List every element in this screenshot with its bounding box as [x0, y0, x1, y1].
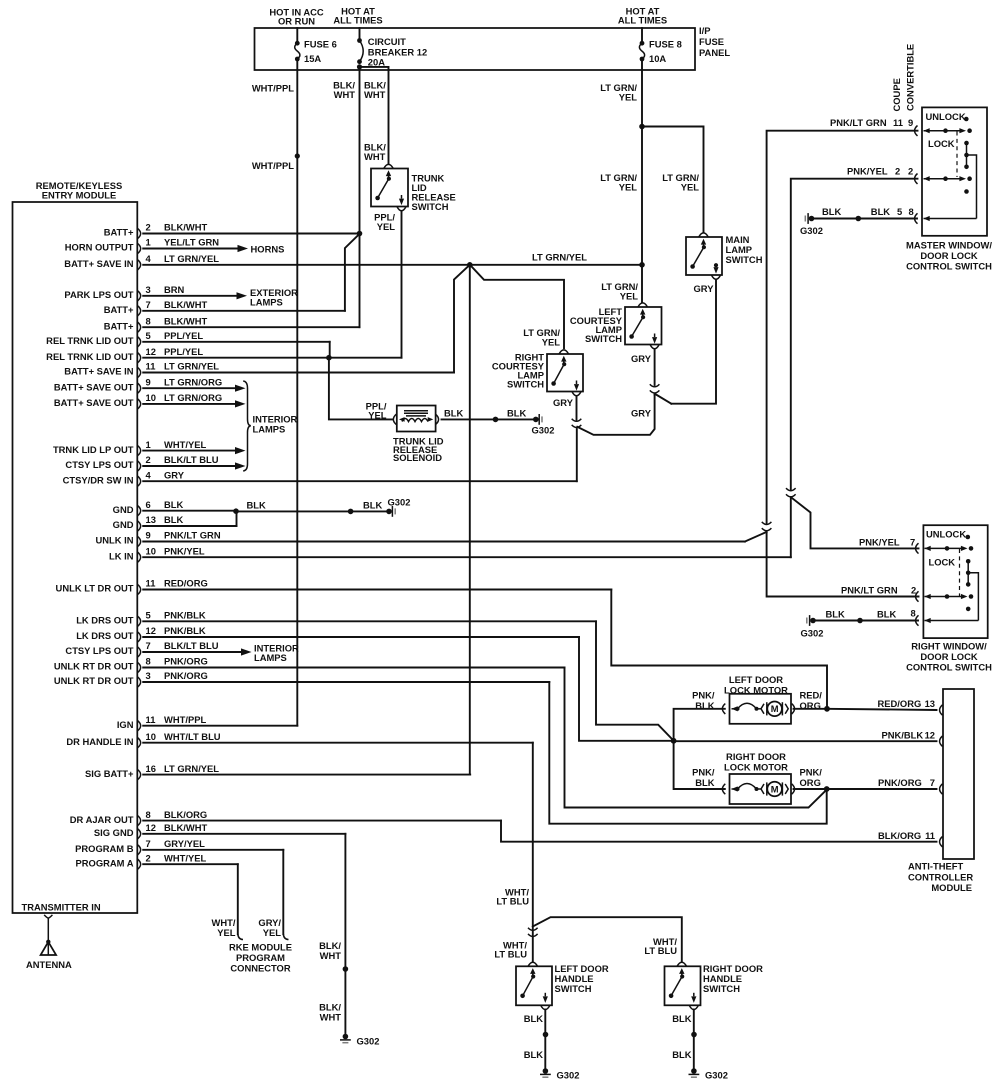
wire PNK/BLK 12 to anti-theft [674, 740, 937, 742]
wire BLK to master [814, 218, 917, 220]
svg-text:11: 11 [146, 361, 156, 372]
node LT GRN/YEL junction B (fuse 8 drop) [639, 124, 645, 130]
wire BLK right handle to ground [693, 1010, 695, 1069]
wire BLK from solenoid to ground [442, 418, 534, 420]
fuse F6 15A [296, 28, 298, 43]
circuit breaker CB12 20A [359, 28, 361, 41]
svg-text:BLK: BLK [164, 499, 183, 510]
svg-text:BLK/WHT: BLK/WHT [164, 822, 207, 833]
trunk lid release solenoid [393, 414, 396, 424]
wire UNLK IN diagonal to riser [745, 532, 767, 542]
svg-text:BLK: BLK [672, 1013, 691, 1024]
svg-text:LOCK MOTOR: LOCK MOTOR [724, 684, 788, 695]
svg-text:PROGRAM: PROGRAM [236, 952, 285, 963]
node CB12 output junction [357, 64, 362, 69]
wire junction A to right courtesy switch [470, 265, 564, 348]
svg-text:2: 2 [146, 222, 151, 233]
anti-theft controller module box [943, 689, 974, 859]
svg-text:12: 12 [146, 625, 156, 636]
node RED/ORG junction [824, 706, 830, 712]
svg-text:11: 11 [146, 578, 156, 589]
svg-text:2: 2 [908, 166, 913, 177]
svg-text:ORG: ORG [800, 700, 821, 711]
svg-text:PNK/LT GRN: PNK/LT GRN [164, 530, 221, 541]
svg-text:16: 16 [146, 763, 156, 774]
svg-text:15A: 15A [304, 53, 321, 64]
wire GRY down to CTSY/DR SW IN row [576, 429, 578, 481]
svg-text:SWITCH: SWITCH [555, 983, 592, 994]
master dashed divider [956, 132, 958, 178]
ground G302 (master) [809, 216, 815, 222]
svg-text:BLK: BLK [672, 1049, 691, 1060]
svg-text:HORNS: HORNS [251, 244, 285, 255]
svg-text:PNK/ORG: PNK/ORG [164, 656, 208, 667]
svg-text:PNK/ORG: PNK/ORG [164, 670, 208, 681]
node BLK splice (gnd) [348, 509, 354, 515]
ground G302 (right handle) [691, 1068, 697, 1074]
wire DR AJAR OUT BLK/ORG path to anti-theft [501, 821, 937, 842]
svg-text:PNK/BLK: PNK/BLK [164, 625, 206, 636]
svg-text:G302: G302 [705, 1070, 728, 1081]
svg-text:BLK: BLK [363, 500, 382, 511]
svg-text:9: 9 [146, 530, 151, 541]
svg-text:YEL/LT GRN: YEL/LT GRN [164, 237, 219, 248]
svg-text:BLK: BLK [507, 408, 526, 419]
svg-text:G302: G302 [357, 1036, 380, 1047]
svg-text:CONTROLLER: CONTROLLER [908, 872, 973, 883]
interior lamps arrow (pin 7) [241, 648, 252, 655]
connector C (PNK/YEL riser) [786, 488, 796, 491]
antenna [47, 918, 49, 955]
svg-text:BRN: BRN [164, 284, 185, 295]
svg-text:5: 5 [146, 610, 151, 621]
svg-text:RIGHT WINDOW/: RIGHT WINDOW/ [911, 641, 987, 652]
svg-text:PNK/: PNK/ [692, 767, 715, 778]
trunk lid release switch [371, 169, 408, 207]
svg-text:RKE MODULE: RKE MODULE [229, 942, 292, 953]
svg-text:REL TRNK LID OUT: REL TRNK LID OUT [46, 335, 134, 346]
svg-text:BLK/ORG: BLK/ORG [164, 809, 207, 820]
svg-text:RED/ORG: RED/ORG [164, 578, 208, 589]
svg-text:DOOR LOCK: DOOR LOCK [920, 250, 978, 261]
svg-text:G302: G302 [800, 225, 823, 236]
svg-text:CIRCUIT: CIRCUIT [368, 36, 406, 47]
svg-text:7: 7 [930, 777, 935, 788]
wire PNK/YEL riser to master switch pin 2 [791, 179, 918, 490]
svg-text:7: 7 [146, 299, 151, 310]
svg-text:BLK: BLK [877, 609, 896, 620]
wire pin3 PNK/ORG path [549, 682, 826, 824]
svg-text:WHT/PPL: WHT/PPL [164, 714, 206, 725]
svg-text:BLK: BLK [444, 408, 463, 419]
exterior lamps arrow [237, 292, 248, 299]
svg-text:FUSE 6: FUSE 6 [304, 39, 337, 50]
svg-text:BATT+: BATT+ [104, 227, 134, 238]
svg-text:PNK/ORG: PNK/ORG [878, 777, 922, 788]
svg-text:11: 11 [925, 830, 935, 841]
ground G302 (right window) [810, 618, 816, 624]
main lamp switch [686, 237, 722, 275]
master unlock dot [964, 117, 969, 122]
interior lamps brace arrows (pins 9,10,1,2) [235, 385, 246, 392]
svg-text:MASTER WINDOW/: MASTER WINDOW/ [906, 240, 992, 251]
svg-text:LT BLU: LT BLU [644, 945, 677, 956]
svg-text:BLK/LT BLU: BLK/LT BLU [164, 640, 219, 651]
svg-text:7: 7 [910, 537, 915, 548]
svg-text:WHT/LT BLU: WHT/LT BLU [164, 731, 221, 742]
wire WHT/PPL from fuse 6 down to IGN row [296, 59, 298, 726]
master lower dot [964, 189, 969, 194]
svg-text:20A: 20A [368, 56, 385, 67]
svg-text:YEL: YEL [368, 410, 387, 421]
right window/door lock control switch box [923, 525, 987, 638]
svg-text:LK IN: LK IN [109, 550, 134, 561]
svg-text:OR RUN: OR RUN [278, 16, 315, 27]
wire pin12 PNK/BLK path [579, 637, 672, 741]
wire BLK to right window [816, 620, 918, 622]
svg-text:11: 11 [146, 714, 156, 725]
svg-text:2: 2 [911, 585, 916, 596]
svg-text:PNK/LT GRN: PNK/LT GRN [841, 585, 898, 596]
wire GRY left courtesy drop [654, 349, 656, 385]
svg-text:FUSE: FUSE [699, 36, 724, 47]
node BLK splice (right window) [857, 618, 863, 624]
wire pin7 riser to BATT+ junction [345, 234, 360, 311]
svg-text:LAMPS: LAMPS [253, 424, 286, 435]
svg-text:WHT: WHT [364, 151, 386, 162]
svg-text:YEL: YEL [377, 221, 396, 232]
svg-text:CTSY LPS OUT: CTSY LPS OUT [65, 645, 133, 656]
svg-text:3: 3 [146, 284, 151, 295]
svg-text:ANTENNA: ANTENNA [26, 959, 72, 970]
svg-text:1: 1 [146, 237, 151, 248]
svg-text:BLK: BLK [826, 609, 845, 620]
svg-text:WHT/PPL: WHT/PPL [252, 83, 294, 94]
node LT GRN/YEL junction A [467, 262, 473, 268]
svg-text:LOCK: LOCK [929, 557, 956, 568]
svg-text:WHT: WHT [334, 89, 356, 100]
svg-text:CONTROL SWITCH: CONTROL SWITCH [906, 261, 992, 272]
svg-text:GND: GND [113, 519, 134, 530]
svg-text:PPL/YEL: PPL/YEL [164, 330, 203, 341]
svg-text:3: 3 [146, 670, 151, 681]
ground G302 (solenoid) [533, 417, 539, 423]
node PPL/YEL junction [326, 355, 332, 361]
svg-text:G302: G302 [532, 425, 555, 436]
svg-text:CTSY/DR SW IN: CTSY/DR SW IN [63, 474, 134, 485]
node BLK splice (left handle) [543, 1032, 549, 1038]
svg-text:LT GRN/YEL: LT GRN/YEL [164, 361, 219, 372]
wire PNK/BLK junction to right motor [674, 741, 725, 789]
right window dashed divider [959, 549, 961, 596]
wire PROGRAM A WHT/YEL drop [237, 864, 239, 934]
wire BLK/WHT branch to trunk lid release switch [360, 67, 389, 164]
svg-text:LT GRN/ORG: LT GRN/ORG [164, 376, 222, 387]
svg-text:YEL: YEL [619, 182, 638, 193]
svg-text:PANEL: PANEL [699, 47, 730, 58]
svg-text:BATT+ SAVE IN: BATT+ SAVE IN [64, 366, 133, 377]
svg-text:LAMPS: LAMPS [250, 297, 283, 308]
svg-text:12: 12 [925, 730, 935, 741]
right window pin row 8 internals [916, 615, 919, 625]
wire RED/ORG from UNLK LT DR OUT to left door lock motor [611, 590, 827, 709]
svg-text:6: 6 [146, 499, 151, 510]
svg-text:YEL: YEL [263, 927, 282, 938]
svg-text:RED/ORG: RED/ORG [878, 698, 922, 709]
svg-text:WHT: WHT [320, 1012, 342, 1023]
svg-text:REL TRNK LID OUT: REL TRNK LID OUT [46, 351, 134, 362]
svg-text:BLK/WHT: BLK/WHT [164, 222, 207, 233]
master pin row 5/8 internals [915, 213, 918, 223]
wire junction A drop (long vertical to SIG BATT+) [469, 265, 471, 775]
node PNK/BLK junction [671, 738, 677, 744]
svg-text:YEL: YEL [681, 182, 700, 193]
svg-text:SWITCH: SWITCH [703, 983, 740, 994]
svg-text:PROGRAM B: PROGRAM B [75, 843, 134, 854]
svg-text:CONVERTIBLE: CONVERTIBLE [905, 44, 916, 111]
wire GRY right courtesy drop [576, 396, 578, 420]
svg-text:2: 2 [146, 852, 151, 863]
svg-text:BLK: BLK [247, 500, 266, 511]
svg-text:13: 13 [925, 698, 935, 709]
horns arrow [238, 245, 249, 252]
svg-text:YEL: YEL [619, 92, 638, 103]
wire GND BLK to ground [235, 510, 236, 513]
svg-text:BLK: BLK [695, 777, 714, 788]
svg-text:9: 9 [908, 117, 913, 128]
svg-text:BLK: BLK [871, 206, 890, 217]
svg-text:HORN OUTPUT: HORN OUTPUT [65, 242, 134, 253]
svg-text:8: 8 [911, 608, 916, 619]
svg-text:BATT+: BATT+ [104, 320, 134, 331]
svg-text:LT GRN/YEL: LT GRN/YEL [164, 763, 219, 774]
svg-text:LOCK: LOCK [928, 138, 955, 149]
svg-text:ALL TIMES: ALL TIMES [333, 15, 382, 26]
node GND junction pin6/13 [233, 508, 239, 514]
svg-text:ANTI-THEFT: ANTI-THEFT [908, 861, 963, 872]
svg-text:WHT: WHT [364, 89, 386, 100]
svg-text:UNLOCK: UNLOCK [926, 529, 966, 540]
wire RED/ORG 13 to anti-theft [827, 709, 937, 710]
wire PROGRAM B GRY/YEL drop [282, 850, 284, 934]
svg-text:SOLENOID: SOLENOID [393, 452, 442, 463]
svg-text:LT GRN/YEL: LT GRN/YEL [532, 252, 587, 263]
anti-theft pin 12 PNK/BLK [940, 736, 943, 746]
svg-text:LT GRN/ORG: LT GRN/ORG [164, 392, 222, 403]
wire branch to main lamp switch [642, 127, 704, 232]
ground G302 (left handle) [543, 1068, 549, 1074]
wire BLK left handle to ground [544, 1010, 546, 1069]
svg-text:BLK: BLK [695, 700, 714, 711]
svg-text:5: 5 [897, 206, 902, 217]
svg-text:LT BLU: LT BLU [494, 949, 527, 960]
connector C (PNK/LT GRN riser) [762, 522, 772, 525]
svg-text:SIG BATT+: SIG BATT+ [85, 768, 134, 779]
svg-text:BATT+ SAVE IN: BATT+ SAVE IN [64, 258, 133, 269]
right window pin row 2 internals [916, 591, 919, 601]
node BLK/WHT splice [343, 966, 349, 972]
right window lower dot [966, 607, 971, 612]
wire pin5 PNK/BLK path [596, 621, 673, 740]
svg-text:BLK: BLK [164, 514, 183, 525]
svg-text:LK DRS OUT: LK DRS OUT [76, 630, 134, 641]
master pin row 2/2 internals [915, 174, 918, 184]
svg-text:WHT/PPL: WHT/PPL [252, 160, 294, 171]
svg-text:CONTROL SWITCH: CONTROL SWITCH [906, 662, 992, 673]
svg-text:PNK/LT GRN: PNK/LT GRN [830, 117, 887, 128]
wire PNK/ORG 7 to anti-theft [827, 788, 937, 790]
svg-text:WHT: WHT [320, 950, 342, 961]
svg-text:GRY: GRY [553, 397, 574, 408]
svg-text:8: 8 [146, 315, 151, 326]
svg-text:YEL: YEL [217, 927, 236, 938]
svg-text:GRY: GRY [631, 408, 652, 419]
svg-text:PARK LPS OUT: PARK LPS OUT [64, 289, 133, 300]
svg-text:LT BLU: LT BLU [496, 896, 529, 907]
right window pin row 7 internals [916, 543, 919, 553]
svg-text:BLK: BLK [822, 206, 841, 217]
svg-text:CONNECTOR: CONNECTOR [230, 963, 290, 974]
ground G302 (sig gnd) [343, 1034, 349, 1040]
svg-text:PNK/YEL: PNK/YEL [847, 166, 888, 177]
svg-text:DR HANDLE IN: DR HANDLE IN [66, 736, 133, 747]
anti-theft pin 7 PNK/ORG [940, 784, 943, 794]
svg-text:10A: 10A [649, 53, 666, 64]
wire PPL/YEL down to trunk release solenoid [329, 358, 392, 420]
svg-text:G302: G302 [388, 497, 411, 508]
right window unlock dot [966, 535, 971, 540]
wire below connector down to right courtesy leg [577, 395, 654, 435]
connector C (WHT/LT BLU) [528, 928, 538, 931]
svg-text:BLK: BLK [524, 1049, 543, 1060]
svg-text:TRANSMITTER IN: TRANSMITTER IN [22, 902, 101, 913]
svg-text:5: 5 [146, 330, 151, 341]
svg-text:PNK/: PNK/ [800, 767, 823, 778]
wire below connector to main lamp GRY [655, 395, 672, 404]
svg-text:8: 8 [909, 206, 914, 217]
svg-text:12: 12 [146, 822, 156, 833]
svg-text:11: 11 [893, 117, 903, 128]
svg-text:DR AJAR OUT: DR AJAR OUT [70, 814, 134, 825]
I/P fuse panel box [255, 28, 696, 70]
right courtesy lamp switch [547, 354, 583, 392]
svg-text:PNK/YEL: PNK/YEL [859, 537, 900, 548]
master right rail [964, 141, 969, 146]
svg-text:LAMPS: LAMPS [254, 652, 287, 663]
svg-text:9: 9 [146, 376, 151, 387]
wire pin5 PPL/YEL drop to pin12 row [329, 342, 331, 358]
svg-text:ENTRY MODULE: ENTRY MODULE [42, 190, 116, 201]
wire LK IN riser [790, 497, 792, 557]
svg-text:TRNK LID LP OUT: TRNK LID LP OUT [53, 444, 134, 455]
svg-text:8: 8 [146, 656, 151, 667]
connector C (right courtesy) [572, 419, 582, 422]
node BLK splice (master) [856, 216, 862, 222]
left door handle switch [516, 966, 552, 1005]
svg-text:M: M [771, 703, 779, 714]
svg-text:G302: G302 [557, 1070, 580, 1081]
svg-text:4: 4 [146, 253, 152, 264]
svg-text:BLK/WHT: BLK/WHT [164, 299, 207, 310]
svg-text:7: 7 [146, 640, 151, 651]
svg-text:I/P: I/P [699, 25, 710, 36]
svg-text:WHT/YEL: WHT/YEL [164, 852, 206, 863]
svg-text:7: 7 [146, 838, 151, 849]
svg-text:RED/: RED/ [800, 690, 823, 701]
node BLK splice (right handle) [691, 1032, 697, 1038]
svg-text:BLK/ORG: BLK/ORG [878, 830, 921, 841]
svg-text:SIG GND: SIG GND [94, 827, 134, 838]
wire DR HANDLE IN WHT/LT BLU drop [532, 743, 534, 962]
svg-text:ORG: ORG [800, 777, 821, 788]
svg-text:LT GRN/YEL: LT GRN/YEL [164, 253, 219, 264]
svg-text:LOCK MOTOR: LOCK MOTOR [724, 761, 788, 772]
svg-text:IGN: IGN [117, 719, 134, 730]
right door handle switch [665, 966, 701, 1005]
wire pin8 PNK/ORG path [565, 668, 827, 808]
node BLK splice [493, 417, 499, 423]
svg-text:SWITCH: SWITCH [585, 333, 622, 344]
left courtesy lamp switch [625, 307, 662, 345]
node WHT/PPL splice [295, 153, 300, 158]
svg-text:13: 13 [146, 514, 156, 525]
wire PNK/YEL branch to right window switch pin 7 [791, 498, 918, 549]
fuse F8 10A [641, 28, 643, 43]
node PNK/ORG junction (right motor) [824, 786, 830, 792]
svg-text:GRY: GRY [694, 283, 715, 294]
svg-text:PNK/: PNK/ [692, 690, 715, 701]
svg-text:GND: GND [113, 504, 134, 515]
wire WHT/LT BLU branch to right door handle switch [533, 917, 682, 962]
svg-text:PNK/BLK: PNK/BLK [164, 610, 206, 621]
svg-text:ALL TIMES: ALL TIMES [618, 15, 667, 26]
svg-text:SWITCH: SWITCH [412, 201, 449, 212]
svg-text:UNLK LT DR OUT: UNLK LT DR OUT [56, 583, 134, 594]
anti-theft pin 13 RED/ORG [940, 705, 943, 715]
interior lamps brace [243, 381, 251, 471]
wire PPL/YEL from trunk switch down to pin12 row [401, 211, 403, 357]
svg-text:MODULE: MODULE [931, 882, 972, 893]
svg-text:PROGRAM A: PROGRAM A [76, 857, 134, 868]
svg-text:CTSY LPS OUT: CTSY LPS OUT [65, 459, 133, 470]
svg-text:BLK: BLK [524, 1013, 543, 1024]
svg-text:10: 10 [146, 545, 156, 556]
left door lock motor [722, 704, 725, 714]
svg-text:GRY: GRY [631, 353, 652, 364]
svg-text:YEL: YEL [542, 337, 561, 348]
wire pin11 riser to junction A [454, 265, 469, 372]
svg-text:SWITCH: SWITCH [726, 254, 763, 265]
svg-text:BATT+: BATT+ [104, 304, 134, 315]
node BATT+ junction on BLK/WHT drop [357, 231, 363, 237]
wire PNK/BLK junction to left motor [674, 709, 725, 741]
svg-text:UNLK IN: UNLK IN [95, 535, 133, 546]
svg-text:UNLK RT DR OUT: UNLK RT DR OUT [54, 661, 134, 672]
svg-text:SWITCH: SWITCH [507, 379, 544, 390]
svg-text:PNK/BLK: PNK/BLK [882, 730, 924, 741]
wire PNK/LT GRN drop to right window switch pin 2 [767, 532, 919, 597]
connector C (left courtesy) [650, 384, 660, 387]
svg-text:4: 4 [146, 469, 152, 480]
svg-text:8: 8 [146, 809, 151, 820]
remote/keyless entry module box [13, 202, 138, 913]
svg-text:UNLK RT DR OUT: UNLK RT DR OUT [54, 675, 134, 686]
svg-text:YEL: YEL [620, 291, 639, 302]
svg-text:WHT/YEL: WHT/YEL [164, 439, 206, 450]
svg-text:10: 10 [146, 731, 156, 742]
svg-text:2: 2 [146, 454, 151, 465]
svg-text:10: 10 [146, 392, 156, 403]
